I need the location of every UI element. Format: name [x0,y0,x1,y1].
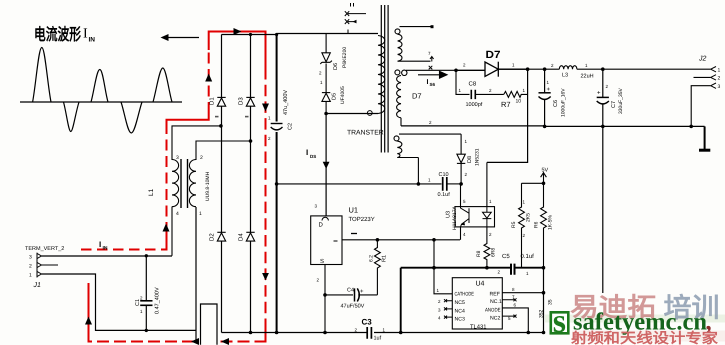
capacitor C2 47u_400V [271,124,283,130]
svg-text:CATHODE: CATHODE [455,292,475,298]
svg-text:3: 3 [718,84,721,90]
diode D8 [457,154,465,184]
diode D1 [217,97,225,106]
svg-text:R1: R1 [382,255,388,262]
arrow up on bridge red vertical [205,74,212,82]
wire bias return + C10 feed [417,158,419,184]
svg-text:2: 2 [551,63,554,68]
svg-text:C3: C3 [362,318,373,327]
wire U4 ANODE to rail [502,308,528,333]
svg-text:H11A817A: H11A817A [452,206,458,230]
watermark text 易迪拓培训 [570,292,720,323]
svg-text:NC5: NC5 [455,300,465,306]
wire L1 right top to bridge D3 node [196,141,251,160]
secondary winding (top, unused) [395,27,432,62]
wire J1 pin3 to choke [42,255,173,257]
svg-text:1000pf: 1000pf [466,102,483,108]
svg-text:+: + [597,91,601,97]
wire red dashed J1 to choke (I_IN) [81,249,167,251]
wire red bottom return left segment [89,341,195,343]
wire L1 left bottom down to J1 pin2 wire [171,207,173,256]
svg-text:L1: L1 [148,188,155,196]
svg-text:D6: D6 [333,63,339,70]
svg-text:S: S [320,258,324,265]
svg-text:UU9.8-10MH: UU9.8-10MH [205,171,211,201]
svg-text:D4: D4 [238,233,245,241]
arrow left on red bottom (left) [191,338,199,345]
arrow up on choke red vertical [163,224,170,232]
wire control drop to U4 [434,240,452,294]
capacitor C7 330uF_35V [597,69,609,126]
waveform curve [33,48,51,103]
svg-text:3: 3 [315,204,318,209]
svg-text:2: 2 [718,76,721,82]
capacitor C6 1000uF_16V [539,69,551,126]
svg-text:L3: L3 [562,73,568,79]
capacitor C10 0.1uf [443,177,447,191]
wire red left vertical to J1 [88,283,90,343]
svg-text:22uH: 22uH [581,74,594,80]
wire bias winding top to D8 [460,134,462,154]
arrowheads on red trace (black) [85,28,269,345]
svg-text:1: 1 [199,211,202,217]
L1 core lines [181,159,188,208]
svg-text:D7: D7 [486,49,501,61]
svg-text:1: 1 [140,309,143,314]
waveform axis [20,101,182,103]
svg-text:+: + [547,87,551,93]
diode D2 [217,232,225,241]
ground symbol [699,126,710,150]
svg-text:0.1uf: 0.1uf [521,253,535,260]
x mark on secondary wire [429,66,433,70]
svg-text:U3: U3 [446,211,452,218]
svg-text:U4: U4 [476,281,485,288]
diode D4 [246,232,254,241]
svg-text:1: 1 [383,328,386,333]
wire clamp bottom / primary bottom / drain [326,113,378,115]
primary winding [378,36,385,114]
polarity dot primary [367,111,372,116]
wire U4 REF to divider [502,292,543,294]
svg-text:2: 2 [489,232,492,237]
capacitor C8 1000pf [471,90,475,99]
svg-text:I: I [99,240,101,249]
svg-text:6.2: 6.2 [369,255,375,262]
common-mode choke L1 [172,126,251,256]
junction dots rails [249,331,546,335]
U4 NC2 stub [502,315,516,318]
svg-text:TL431: TL431 [470,323,487,330]
svg-text:2K5: 2K5 [526,213,532,222]
svg-text:NC3: NC3 [455,317,465,323]
svg-text:2: 2 [140,296,143,301]
svg-text:1: 1 [459,88,462,93]
L1 left winding [172,160,179,207]
capacitor C4 47uF/50V [355,288,360,301]
diode D3 [246,97,254,106]
U4 NC stubs left [444,299,452,318]
wire secondary return rail [401,125,545,127]
svg-text:47u_400V: 47u_400V [283,90,289,115]
svg-text:NC4: NC4 [455,308,465,314]
svg-text:1: 1 [437,288,440,293]
wire +5V node [522,182,544,184]
svg-text:2: 2 [523,233,526,238]
svg-text:0.47_400V: 0.47_400V [155,287,161,314]
thick B+ bus [276,34,278,333]
diode D1 branch [221,35,223,233]
svg-text:ANODE: ANODE [485,307,501,313]
transformer TRANSTER core [381,5,388,153]
tick at top wire [347,30,349,34]
svg-text:D7: D7 [412,92,422,101]
svg-text:C4: C4 [347,288,354,294]
svg-text:5V: 5V [542,168,549,174]
capacitor C5 0.1uf [511,264,515,275]
svg-text:0.1uf: 0.1uf [438,192,451,198]
inductor L3 22uH [559,66,577,70]
clamp branch wire [325,34,327,114]
arrow right on red top [234,28,242,35]
svg-text:P6KE200: P6KE200 [342,47,348,68]
svg-text:1: 1 [523,200,526,205]
capacitor C1 0.47_400V [140,256,152,331]
svg-text:6: 6 [514,303,517,308]
resistor R5 [519,183,525,267]
secondary ground rail [545,125,705,127]
diode D7 (output rectifier) [456,62,528,77]
svg-text:NC2: NC2 [490,316,500,322]
svg-text:J2: J2 [698,56,707,63]
svg-text:2: 2 [438,299,441,304]
wire bridge top rail to bus [222,34,277,36]
wire bus top to primary top [277,33,378,35]
svg-text:C10: C10 [439,172,449,178]
svg-text:REF: REF [490,292,500,298]
secondary winding (main 12V) [395,70,456,126]
svg-text:1: 1 [512,63,515,68]
svg-text:IN: IN [89,37,96,44]
arrow left on red bottom (right) [221,338,229,345]
svg-text:47uF/50V: 47uF/50V [341,304,365,310]
bottom primary rail [222,332,544,334]
svg-text:1: 1 [547,80,550,85]
svg-text:2: 2 [317,278,320,283]
svg-text:1uf: 1uf [374,336,382,342]
svg-text:7: 7 [512,294,515,299]
label: 电流波形 I_IN [34,25,95,44]
svg-text:1: 1 [585,63,588,68]
arrow down on red right vertical [262,104,269,112]
arrow I_P on drain wire [323,162,330,169]
wire output node to L3 [498,68,559,70]
svg-text:+: + [360,289,364,295]
svg-text:IN: IN [103,246,108,252]
svg-text:1: 1 [465,139,468,144]
wire source to C4 [325,294,353,296]
svg-text:R5: R5 [511,221,517,228]
arrow up on left red vertical [85,317,92,325]
svg-text:2: 2 [200,155,203,161]
svg-text:D8: D8 [467,156,473,163]
svg-text:1: 1 [718,68,721,74]
wire J2 pin2 stub [694,76,711,78]
svg-text:S6: S6 [430,82,436,87]
svg-text:2: 2 [465,172,468,177]
svg-text:NC.1: NC.1 [490,299,502,305]
junction dots bridge [219,33,278,143]
svg-text:330uF_35V: 330uF_35V [618,87,624,114]
diode D5 UF4005 [322,93,330,102]
svg-text:DS: DS [310,154,316,159]
svg-text:C5: C5 [502,253,510,260]
svg-text:4: 4 [463,232,466,237]
svg-text:D: D [319,222,324,229]
red current-loop trace [81,32,267,343]
snubber branch wire [456,70,470,94]
svg-text:I: I [427,79,429,86]
svg-text:6R8: 6R8 [491,248,497,257]
svg-text:I: I [83,27,88,42]
svg-text:1: 1 [428,178,431,183]
wire choke right winding bottom down [195,207,197,343]
svg-text:C7: C7 [611,101,617,108]
wire U1 source pin down [324,265,326,333]
bias winding [394,134,461,157]
svg-text:2: 2 [606,84,609,89]
svg-text:I: I [306,148,308,157]
wire bus drop to rail [400,268,402,333]
svg-text:TERM_VERT_2: TERM_VERT_2 [25,246,64,252]
arrow down on red right vertical (lower) [262,273,269,281]
svg-text:1: 1 [320,80,323,85]
wire U3 pin (collector) up to bias [460,184,462,207]
wire hump over red trace [201,304,218,345]
optocoupler U3 H11A817A [455,207,495,227]
resistor R8 below LED [484,227,490,268]
svg-text:D1: D1 [209,97,216,105]
svg-text:R6: R6 [534,221,540,228]
svg-text:5: 5 [463,199,466,204]
resistor R6 1K-5% [541,183,547,267]
svg-text:C8: C8 [469,81,477,88]
svg-text:3: 3 [29,255,32,261]
wire red right vertical down [265,68,267,328]
zener D6 P6KE200 [320,53,332,64]
wire red top horizontal [209,32,266,69]
diode D2 branch [221,241,223,333]
svg-text:3: 3 [176,155,179,161]
svg-text:TRANSTER: TRANSTER [347,130,384,137]
watermark halo bands [545,315,725,323]
svg-text:4: 4 [176,211,179,217]
svg-text:C2: C2 [288,123,294,130]
svg-text:2: 2 [268,136,271,141]
svg-text:1K-5%: 1K-5% [548,214,554,230]
annotation arrow pointing left (top) [161,34,200,41]
wire U3 emitter down to control wire [460,227,462,240]
arrow I_S on secondary wire [418,71,447,78]
svg-text:TOP223Y: TOP223Y [349,216,375,223]
svg-text:2: 2 [29,264,32,270]
svg-text:1: 1 [523,88,526,93]
svg-text:2: 2 [429,120,432,125]
wire red vertical through choke L1 [166,233,168,251]
diode D4 branch [250,241,252,333]
svg-text:2: 2 [489,88,492,93]
svg-text:8: 8 [512,287,515,292]
diode D3 branch [250,35,252,233]
svg-text:s: s [553,303,566,340]
svg-text:1000uF_16V: 1000uF_16V [561,88,567,117]
svg-text:C6: C6 [553,100,559,107]
svg-text:4: 4 [438,316,441,321]
svg-text:352: 352 [539,309,545,318]
svg-text:1: 1 [268,116,271,121]
svg-text:射频和天线设计专家: 射频和天线设计专家 [570,330,719,345]
wire U3 LED anode up to 12V feed [486,162,488,206]
feedback bus [401,267,544,269]
wire red bottom return right segment [219,341,267,343]
resistor R1 [375,240,381,295]
svg-text:UF4005: UF4005 [340,86,346,104]
svg-text:1: 1 [489,199,492,204]
svg-text:10: 10 [516,99,522,105]
svg-text:2: 2 [355,328,358,333]
wire J2 pin3 to ground rail [691,86,711,127]
U4 NC1 stub [502,298,516,301]
L1 right winding [189,160,196,207]
watermark logo S box [551,303,569,340]
wire L1 left top to bridge D1 node [172,126,221,160]
connector J1 (TERM_VERT_2) [37,253,58,278]
svg-text:3: 3 [438,308,441,313]
svg-text:2: 2 [498,270,501,275]
wire J1 pin1 down and along bottom [42,274,197,330]
svg-text:D2: D2 [209,233,216,241]
resistor R7 10 [504,91,528,97]
waveform annotation: input current [20,48,182,134]
svg-text:D3: D3 [238,97,245,105]
svg-text:2: 2 [319,71,322,76]
capacitor C3 (Y-cap in rail) [367,327,371,339]
svg-text:1N5231: 1N5231 [475,148,481,166]
wire U1 control pin [342,239,460,241]
svg-text:2: 2 [463,63,466,68]
svg-text:D5: D5 [332,93,338,100]
svg-text:1: 1 [526,271,529,276]
svg-text:7: 7 [428,51,431,56]
wire bias bus to B- bus [277,183,442,185]
wire red jog to bridge column [167,113,209,129]
svg-text:J1: J1 [33,282,42,289]
dangling sense line [602,126,604,293]
wire R7/D7 node down to opto feed [487,69,528,162]
IC U1 TOP223Y [311,216,342,265]
wire R6 node down to rail [543,268,545,333]
svg-text:R7: R7 [501,100,511,109]
wire drain vertical [325,114,327,216]
svg-text:1: 1 [29,273,32,279]
svg-text:R8: R8 [476,250,482,257]
svg-text:电流波形: 电流波形 [34,25,81,44]
+5V power symbol [541,173,547,184]
svg-text:U1: U1 [349,206,359,215]
IC U4 TL431 [452,278,502,329]
unconnected pin markers above transformer [345,3,366,24]
